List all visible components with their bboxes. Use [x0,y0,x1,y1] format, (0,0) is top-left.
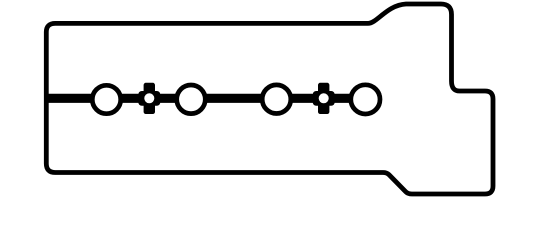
circle 3 [262,85,291,114]
circle 1 [92,85,120,113]
rail [46,94,352,103]
circle 4 [351,85,380,114]
circle 2 [177,85,206,114]
bolt pad 2 [313,83,335,114]
bolt pad 1 [138,83,160,114]
gasket outline [46,4,493,194]
